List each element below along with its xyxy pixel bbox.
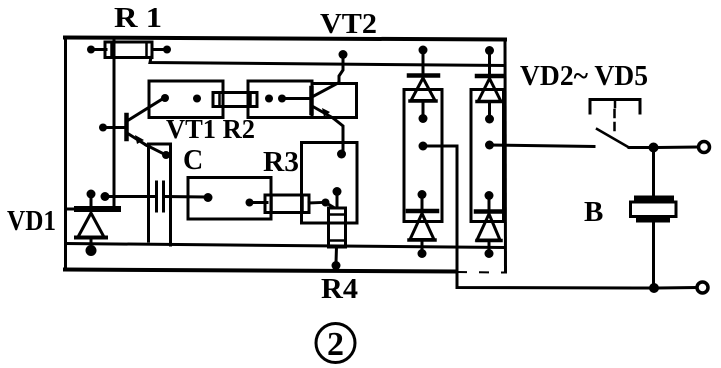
wire to sounder B xyxy=(652,148,655,197)
svg-text:R3: R3 xyxy=(263,147,299,178)
box C right / R3 left xyxy=(188,178,271,220)
node dot near VD1 xyxy=(101,192,110,201)
resistor R2 xyxy=(213,93,257,107)
svg-text:VT1 R2: VT1 R2 xyxy=(166,114,255,144)
box VT2 xyxy=(312,84,357,118)
terminal circle bottom xyxy=(697,282,708,293)
diode box VD3 VD5 xyxy=(471,90,504,222)
pad dot xyxy=(265,95,273,103)
transistor VT2 xyxy=(312,83,344,150)
wire VT2 collector to top xyxy=(339,50,348,83)
diode VD5 xyxy=(476,191,503,258)
pad dot xyxy=(204,193,213,202)
pad dot xyxy=(246,199,254,207)
svg-text:C: C xyxy=(183,145,203,176)
svg-text:VD1: VD1 xyxy=(7,206,56,237)
pad dot xyxy=(161,94,169,102)
wire capacitor to box xyxy=(165,195,205,199)
node dot W1 xyxy=(419,142,428,151)
wire to bottom terminal xyxy=(658,286,696,290)
board outline xyxy=(65,38,506,273)
junction dot top right xyxy=(649,143,659,153)
wire B to bottom rail xyxy=(652,223,655,286)
transistor VT1 xyxy=(99,98,166,155)
wire W1 to bottom rail xyxy=(423,146,650,288)
box R2 right / VT2 left xyxy=(248,81,312,118)
pad dot xyxy=(337,150,346,159)
junction dot bottom right xyxy=(649,283,659,293)
wire to top terminal xyxy=(658,146,697,150)
pad dot xyxy=(333,187,342,196)
svg-text:R4: R4 xyxy=(321,274,358,305)
switch blade xyxy=(597,129,649,148)
diode VD4 xyxy=(408,190,437,258)
bottom bus wire xyxy=(66,244,505,248)
resistor R1 xyxy=(87,42,171,58)
wire base VT2 xyxy=(285,97,310,100)
box under VT1 / capacitor C outline xyxy=(149,144,171,245)
diode VD3 xyxy=(477,46,504,124)
diode box VD2 VD4 xyxy=(404,90,442,222)
svg-text:VD2~ VD5: VD2~ VD5 xyxy=(520,60,648,92)
box R3 right / R4 top xyxy=(302,143,358,224)
left vertical wire xyxy=(113,38,116,211)
top bus wire xyxy=(150,58,505,66)
wire W2 to switch xyxy=(490,145,595,147)
switch actuator bracket xyxy=(590,100,640,134)
resistor R3 xyxy=(265,195,330,213)
capacitor C plates xyxy=(157,182,164,211)
node dot W2 xyxy=(485,141,494,150)
pad dot xyxy=(193,95,201,103)
sounder B xyxy=(631,196,677,223)
wire dot to capacitor xyxy=(105,195,155,198)
pad dot xyxy=(278,95,286,103)
svg-text:R 1: R 1 xyxy=(114,2,162,34)
diode VD2 xyxy=(409,46,438,124)
figure number circle xyxy=(316,324,355,363)
box around VT1 collector pads / R2 left xyxy=(149,81,223,118)
wire pad to R3 xyxy=(252,201,267,204)
svg-text:2: 2 xyxy=(327,326,344,363)
resistor R4 xyxy=(326,194,346,270)
pad dot emitter VT1 xyxy=(162,151,170,159)
svg-text:B: B xyxy=(584,196,603,228)
svg-text:VT2: VT2 xyxy=(320,9,377,40)
terminal circle top xyxy=(699,142,710,153)
diode VD1 xyxy=(66,190,119,257)
